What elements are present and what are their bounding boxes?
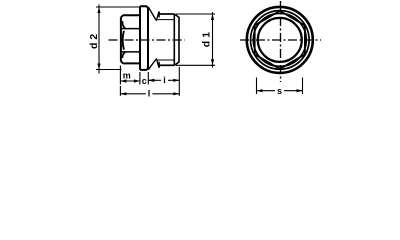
hex chamfer arc bottom face xyxy=(122,52,125,58)
svg-text:i: i xyxy=(163,75,166,85)
collar (flange) side view xyxy=(140,6,148,70)
dimension d2 extension top xyxy=(96,6,141,8)
dimension l arrow left xyxy=(120,92,126,95)
hex chamfer arc top face xyxy=(122,21,125,28)
hex facet line upper xyxy=(121,28,140,30)
dimension d1 extension bottom xyxy=(176,64,215,66)
dimension m extension left xyxy=(119,66,121,85)
dimension s line left segment xyxy=(257,90,276,92)
hex chamfer arc middle face xyxy=(123,31,124,50)
thread crest line top xyxy=(159,13,174,15)
plug end face xyxy=(174,14,179,65)
dimension i arrow right xyxy=(173,79,179,82)
dimension l line left segment xyxy=(120,93,145,95)
dimension d2 arrow bottom xyxy=(97,64,100,70)
svg-text:d2: d2 xyxy=(88,31,100,49)
dimension d1 extension top xyxy=(176,13,215,15)
dimension m extension right xyxy=(139,72,141,85)
dimension i arrow left xyxy=(148,79,154,82)
dimension l extension left xyxy=(119,86,121,96)
dimension m arrow right xyxy=(134,79,140,82)
dimension s arrow left xyxy=(257,89,263,92)
dimension i line right segment xyxy=(168,79,179,81)
dimension s line right segment xyxy=(284,90,303,92)
thread end chamfer line xyxy=(173,14,175,65)
thread root line bottom xyxy=(158,59,175,61)
dimension c extension right xyxy=(147,72,149,85)
svg-text:c: c xyxy=(142,76,147,86)
svg-text:l: l xyxy=(148,88,151,98)
dimension i line left segment xyxy=(148,79,161,81)
outer circle (collar d2) xyxy=(247,7,313,73)
svg-text:m: m xyxy=(123,71,131,81)
dimension l line right segment xyxy=(152,93,179,95)
dimension c outside arrow xyxy=(148,79,154,82)
dimension m line xyxy=(120,80,139,82)
hex chamfer circle xyxy=(253,13,306,66)
dimension d1 line xyxy=(212,12,214,67)
dimension d1 arrow bottom xyxy=(211,59,214,65)
hex head side view outline xyxy=(121,15,140,63)
dimension l extension right xyxy=(178,67,180,96)
dimension s extension right xyxy=(302,78,304,95)
svg-text:d1: d1 xyxy=(200,29,212,47)
inner circle (thread) xyxy=(258,18,302,62)
thread root line top xyxy=(158,19,175,21)
svg-text:s: s xyxy=(277,86,282,96)
undercut chamfer top xyxy=(148,7,159,20)
dimension d2 line xyxy=(98,5,100,74)
end view centerline horizontal xyxy=(240,39,321,41)
centerline side view xyxy=(109,39,185,41)
dimension s extension left xyxy=(256,78,258,95)
dimension l arrow right xyxy=(173,92,179,95)
hex facet line lower xyxy=(121,51,140,53)
dimension d1 arrow top xyxy=(211,14,214,20)
undercut chamfer bottom xyxy=(148,59,159,70)
thread crest line bottom xyxy=(159,64,174,66)
end view centerline vertical xyxy=(280,1,282,82)
collar rim chamfer circle xyxy=(250,11,309,70)
dimension m arrow left xyxy=(120,79,126,82)
dimension s arrow right xyxy=(297,89,303,92)
dimension d2 arrow top xyxy=(97,7,100,13)
hexagon (vertex up) xyxy=(255,11,305,69)
dimension d2 extension bottom xyxy=(96,69,122,71)
